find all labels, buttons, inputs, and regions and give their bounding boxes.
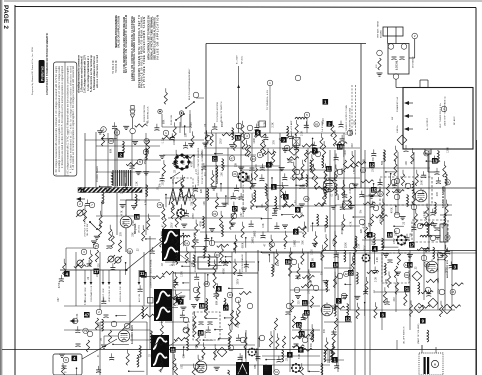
callout top 2 xyxy=(327,121,333,127)
node a1 xyxy=(101,127,107,133)
svg-text:120K: 120K xyxy=(173,179,175,185)
node h6 xyxy=(341,293,347,299)
callout x1 xyxy=(310,262,316,268)
callout 16c xyxy=(387,232,393,238)
callout 2c xyxy=(293,229,299,235)
bus wire y290 center xyxy=(290,289,330,291)
svg-text:680K: 680K xyxy=(342,168,344,174)
bus vertical x150 xyxy=(149,236,151,350)
svg-text:5%: 5% xyxy=(159,183,161,187)
svg-text:10: 10 xyxy=(198,330,203,335)
capacitor C1A in switch box xyxy=(392,57,397,60)
waveform photo box 1 xyxy=(162,229,180,261)
coil L1 line choke xyxy=(178,235,190,237)
svg-text:1.5K: 1.5K xyxy=(354,169,356,174)
svg-text:-1.1V: -1.1V xyxy=(321,254,323,260)
wire drop tl xyxy=(189,110,191,133)
resistor R20 xyxy=(95,318,98,330)
svg-text:470K: 470K xyxy=(200,221,202,227)
callout 47b xyxy=(84,312,90,318)
wire v4 grid xyxy=(104,335,118,337)
svg-text:680K: 680K xyxy=(224,268,226,274)
callout 20c xyxy=(223,305,229,311)
resistor R52 xyxy=(330,346,333,358)
wire stub1 xyxy=(269,86,271,133)
svg-text:2. Resistors are rated in ohms: 2. Resistors are rated in ohms K=1000 5.… xyxy=(61,65,64,168)
svg-text:ON-OFF SW: ON-OFF SW xyxy=(87,224,89,236)
callout x13 xyxy=(326,166,332,172)
bus vertical x335 xyxy=(334,150,336,310)
node a4 xyxy=(89,202,95,208)
svg-text:330: 330 xyxy=(311,343,313,348)
node pin col 1 xyxy=(394,178,400,184)
svg-text:5%: 5% xyxy=(203,356,205,360)
callout 11b xyxy=(170,347,176,353)
svg-text:10K: 10K xyxy=(263,223,265,228)
svg-text:3.3K: 3.3K xyxy=(77,313,79,318)
svg-text:135V: 135V xyxy=(380,217,382,223)
notes box outline xyxy=(54,62,77,176)
svg-text:68K: 68K xyxy=(164,119,166,124)
svg-text:100K: 100K xyxy=(98,322,100,328)
ratio transformer coil 2 xyxy=(420,235,432,237)
svg-text:-1.1V: -1.1V xyxy=(312,168,314,174)
svg-text:330: 330 xyxy=(373,157,375,162)
bus vertical x322 xyxy=(321,250,323,375)
svg-text:-1.1V: -1.1V xyxy=(163,138,165,144)
svg-text:56K: 56K xyxy=(351,130,353,135)
wire phono link xyxy=(161,114,163,127)
svg-text:120K: 120K xyxy=(386,278,388,284)
tube socket X2 xyxy=(237,171,248,182)
capacitor C50 xyxy=(388,260,393,263)
switch S1 interlock xyxy=(90,222,96,228)
svg-text:.22: .22 xyxy=(403,221,405,225)
svg-text:VHF ANT. TERM: VHF ANT. TERM xyxy=(377,21,380,38)
node ant xyxy=(412,33,418,39)
svg-text:TO PIN 4 OF: TO PIN 4 OF xyxy=(116,59,118,73)
callout x6 xyxy=(216,286,222,292)
resistor R2 xyxy=(118,240,121,252)
svg-text:47: 47 xyxy=(231,156,235,160)
svg-text:.22: .22 xyxy=(174,169,176,173)
svg-text:12K: 12K xyxy=(411,232,413,237)
capacitor C42 xyxy=(294,344,299,347)
node f6 xyxy=(183,317,189,323)
svg-text:8.2K: 8.2K xyxy=(285,243,287,248)
svg-text:100K: 100K xyxy=(174,139,176,145)
svg-text:2.2K: 2.2K xyxy=(302,130,304,135)
svg-text:unless otherwise noted: unless otherwise noted xyxy=(96,55,99,88)
svg-text:94: 94 xyxy=(145,139,149,143)
power transformer primary box xyxy=(198,257,217,269)
bus vertical x85 xyxy=(84,133,86,190)
svg-text:85: 85 xyxy=(425,151,429,155)
wire v1 k xyxy=(125,228,127,252)
svg-text:21: 21 xyxy=(212,156,217,161)
svg-text:47: 47 xyxy=(84,312,89,317)
switch S2 contacts xyxy=(171,172,180,178)
svg-text:11: 11 xyxy=(171,347,176,352)
svg-text:6AU8: 6AU8 xyxy=(216,177,219,184)
svg-text:18: 18 xyxy=(199,303,204,308)
svg-text:39K: 39K xyxy=(322,270,324,275)
bus wire y155 xyxy=(163,154,256,156)
svg-text:330: 330 xyxy=(299,300,301,305)
diamond tp4 xyxy=(414,303,424,313)
svg-text:FUSED SWITCH: FUSED SWITCH xyxy=(144,105,146,122)
wire ant drop xyxy=(414,39,416,58)
callout 5c xyxy=(255,130,261,136)
svg-text:2.2K: 2.2K xyxy=(311,280,313,285)
callout 11e xyxy=(140,271,146,277)
node switch top2 xyxy=(401,44,407,50)
tube V1 6BQ6 xyxy=(120,215,132,228)
svg-text:22K: 22K xyxy=(121,189,123,194)
svg-text:PAGE 2: PAGE 2 xyxy=(2,5,9,29)
svg-text:150V: 150V xyxy=(323,118,325,124)
callout x4 xyxy=(336,298,342,304)
callout 17e xyxy=(409,242,415,248)
bus vertical x241 xyxy=(240,133,242,188)
svg-text:84: 84 xyxy=(446,180,450,184)
node e6 xyxy=(87,331,93,337)
svg-text:TO PHONO MOTOR: TO PHONO MOTOR xyxy=(217,102,219,122)
tuner enclosure top xyxy=(206,43,366,45)
svg-text:250V: 250V xyxy=(191,122,193,128)
black box fuse holder xyxy=(263,365,272,375)
svg-text:22K: 22K xyxy=(369,222,371,227)
svg-text:5%: 5% xyxy=(360,210,362,214)
svg-text:LOCKING RANGE: LOCKING RANGE xyxy=(241,253,244,272)
svg-text:AT PICTURE TUBE WAVEFORMS TAK: AT PICTURE TUBE WAVEFORMS TAKEN xyxy=(142,17,146,88)
svg-text:12K: 12K xyxy=(234,247,236,252)
svg-text:22: 22 xyxy=(348,270,353,275)
potentiometer P3 brightness xyxy=(114,256,122,264)
svg-text:15: 15 xyxy=(304,310,309,315)
node c5 xyxy=(315,151,321,157)
coil L11 xyxy=(310,160,312,172)
svg-text:10K: 10K xyxy=(404,241,406,246)
tuner box tab xyxy=(425,149,431,154)
component cluster if strip xyxy=(159,118,366,261)
bus wire y160 left xyxy=(85,159,161,161)
bus wire y232 xyxy=(200,231,302,233)
svg-text:27K: 27K xyxy=(121,231,123,236)
svg-text:75: 75 xyxy=(158,203,162,207)
antenna insulator xyxy=(130,106,135,129)
callout x5 xyxy=(296,322,302,328)
terminal arrow a5 xyxy=(76,197,85,201)
schematic border left xyxy=(14,5,16,375)
svg-text:3.3K: 3.3K xyxy=(376,277,378,282)
svg-text:150V: 150V xyxy=(373,166,375,172)
svg-text:TO TUNER IF OUTPUT CONN: TO TUNER IF OUTPUT CONN xyxy=(346,105,348,135)
ground G1 xyxy=(91,241,97,244)
bus wire y188 xyxy=(80,187,476,189)
svg-text:470K: 470K xyxy=(392,207,394,213)
capacitor C13 xyxy=(328,178,333,181)
svg-text:.001: .001 xyxy=(182,364,184,369)
schematic border top xyxy=(15,7,476,8)
callout jack xyxy=(72,356,78,362)
wire stub2 xyxy=(306,118,308,133)
terminal to pin xyxy=(72,318,78,324)
capacitor C1B in switch box xyxy=(400,57,405,60)
svg-text:RF AGC: RF AGC xyxy=(453,116,456,125)
coil L30 xyxy=(312,330,314,342)
svg-text:61: 61 xyxy=(405,273,409,277)
callout x16 xyxy=(432,158,438,164)
svg-text:.02: .02 xyxy=(150,353,152,357)
mid-left enclosure line xyxy=(114,129,116,188)
wire wf2 link xyxy=(169,292,182,300)
capacitor C15 xyxy=(435,228,440,231)
svg-text:6BZ6: 6BZ6 xyxy=(338,194,340,200)
svg-text:10K: 10K xyxy=(192,262,194,267)
svg-text:3.3K: 3.3K xyxy=(425,211,427,216)
notes box divider xyxy=(64,62,66,176)
svg-text:.047: .047 xyxy=(241,212,243,217)
svg-text:Preferred: Preferred xyxy=(40,66,44,81)
svg-text:.0047: .0047 xyxy=(215,351,217,358)
dashed box ratio det xyxy=(412,220,448,242)
resistor R-ant 400 xyxy=(378,58,381,70)
svg-text:470K: 470K xyxy=(443,222,445,228)
svg-text:91: 91 xyxy=(379,192,383,196)
switch S4 xyxy=(186,102,194,108)
svg-text:1MEG: 1MEG xyxy=(294,240,296,247)
capacitor C21 xyxy=(76,344,81,347)
audio stage box right xyxy=(146,322,148,375)
wire if cable xyxy=(427,154,429,172)
if cable dashed line 1 xyxy=(351,85,353,135)
svg-text:120K: 120K xyxy=(448,147,450,153)
svg-text:1000: 1000 xyxy=(311,249,313,255)
capacitor C12 xyxy=(300,186,305,189)
svg-text:27K: 27K xyxy=(437,192,439,197)
dashed box sound if xyxy=(380,177,432,205)
b+ feed line xyxy=(238,66,240,133)
svg-text:68K: 68K xyxy=(196,344,198,349)
svg-text:135V: 135V xyxy=(193,213,195,219)
svg-text:1ST PICT IF IN COAXIAL CABLE: 1ST PICT IF IN COAXIAL CABLE xyxy=(84,204,87,237)
callout x15 xyxy=(212,156,218,162)
svg-text:ROTATION CONTROL VIEWED FROM S: ROTATION CONTROL VIEWED FROM SHAFT END xyxy=(132,17,136,81)
svg-text:↓ 2V: ↓ 2V xyxy=(159,321,164,324)
svg-text:.047: .047 xyxy=(413,200,415,205)
node f5 xyxy=(228,345,234,351)
svg-text:27K: 27K xyxy=(278,261,280,266)
coil L10 xyxy=(254,190,256,202)
node g6 xyxy=(259,335,265,341)
svg-text:BUILT-IN ANTENNA ASSEMBLY: BUILT-IN ANTENNA ASSEMBLY xyxy=(188,68,191,100)
node ph2 xyxy=(247,125,253,131)
svg-text:6W: 6W xyxy=(392,117,394,120)
node e1 xyxy=(93,243,99,249)
callout 4c xyxy=(367,232,373,238)
resistor R13 xyxy=(314,176,317,188)
resistor R17 xyxy=(370,214,373,226)
tube heater terminal in tuner xyxy=(441,106,447,112)
diamond tp-if xyxy=(289,146,299,156)
svg-text:1.5K: 1.5K xyxy=(363,159,365,164)
svg-text:11: 11 xyxy=(303,300,308,305)
callout 1c xyxy=(271,184,277,190)
svg-text:.01: .01 xyxy=(98,354,100,358)
svg-text:BOARD: BOARD xyxy=(380,30,383,38)
svg-text:1.5K: 1.5K xyxy=(335,279,337,284)
svg-text:22K: 22K xyxy=(236,162,238,167)
diamond tp3 xyxy=(412,271,422,281)
audio stage box left xyxy=(99,322,101,375)
terminal arrow fil1 xyxy=(404,101,413,105)
terminal drop CONTRAST xyxy=(90,270,92,282)
svg-text:1st AUDIO 6AV6: 1st AUDIO 6AV6 xyxy=(131,324,134,344)
crystal box B xyxy=(343,201,351,209)
svg-text:15: 15 xyxy=(371,187,376,192)
component cluster sound right xyxy=(358,145,450,261)
node h2 xyxy=(437,252,443,258)
terminal drop HOR xyxy=(119,270,121,282)
wire grid dense areas xyxy=(64,146,452,360)
controls bus wire xyxy=(60,269,128,271)
svg-text:120K: 120K xyxy=(254,138,256,144)
waveform photo box 2 xyxy=(154,289,172,321)
capacitor C40 xyxy=(296,276,301,279)
callout 18c xyxy=(199,303,205,309)
svg-text:VERT HOLD 1M: VERT HOLD 1M xyxy=(109,286,111,302)
component cluster mid-left lower xyxy=(85,186,162,247)
node ph1 xyxy=(236,123,242,129)
svg-text:(6CU6): (6CU6) xyxy=(139,225,141,233)
svg-text:22K: 22K xyxy=(201,188,203,193)
component cluster mid-left upper xyxy=(97,121,161,197)
node h5 xyxy=(337,273,343,279)
svg-text:10: 10 xyxy=(337,144,342,149)
node c6 xyxy=(323,187,329,193)
bus vertical x429 xyxy=(428,150,430,250)
callout x18 xyxy=(118,152,124,158)
callout 6c xyxy=(266,162,272,168)
svg-text:250V: 250V xyxy=(238,278,240,284)
capacitor C3 xyxy=(130,166,135,169)
svg-text:VALUE OR APPLICATION: VALUE OR APPLICATION xyxy=(117,16,121,48)
callout 12d xyxy=(345,316,351,322)
tuner enclosure right xyxy=(360,44,362,189)
callout 7b xyxy=(176,297,182,303)
svg-text:VALUE OR APPLICATION: VALUE OR APPLICATION xyxy=(156,15,160,60)
resistor R31 xyxy=(228,322,240,325)
svg-text:1st IF AMP: 1st IF AMP xyxy=(257,121,260,132)
dashed box audio coupling xyxy=(382,253,409,283)
component cluster bottom-right2 xyxy=(321,306,345,375)
svg-text:1MEG: 1MEG xyxy=(428,264,430,271)
svg-text:.01: .01 xyxy=(374,289,376,293)
svg-text:1000: 1000 xyxy=(345,149,347,155)
black tag 2 xyxy=(81,189,85,193)
component cluster top small xyxy=(164,88,182,126)
svg-text:LOCAL: LOCAL xyxy=(395,60,399,70)
svg-text:.05: .05 xyxy=(101,337,103,341)
svg-text:VOLUME 500K: VOLUME 500K xyxy=(85,287,87,302)
wire spk leads xyxy=(421,345,423,353)
resistor R22 xyxy=(86,340,89,352)
svg-text:DISTANCE: DISTANCE xyxy=(412,56,415,68)
callout x10 xyxy=(332,357,338,363)
svg-text:10K: 10K xyxy=(97,272,99,277)
svg-text:-1.1V: -1.1V xyxy=(310,334,312,340)
svg-text:120K: 120K xyxy=(438,277,440,283)
svg-text:27K: 27K xyxy=(423,189,425,194)
component cluster bottom-right xyxy=(321,245,464,319)
svg-text:1.5K: 1.5K xyxy=(203,366,205,371)
audio stage box top xyxy=(100,321,147,323)
capacitor C30 xyxy=(199,322,204,325)
terminal arrow b+ xyxy=(404,127,413,131)
svg-text:73: 73 xyxy=(84,329,88,333)
svg-text:92: 92 xyxy=(446,236,450,240)
bus vertical x173 xyxy=(172,273,174,375)
svg-text:4.7K: 4.7K xyxy=(364,223,366,228)
vhf antenna terminal board xyxy=(383,27,403,36)
resistor R12 xyxy=(304,150,307,162)
resistor R40 xyxy=(292,316,295,328)
node g1 xyxy=(240,337,246,343)
svg-text:10K: 10K xyxy=(221,172,223,177)
svg-text:CONTRAST 10K: CONTRAST 10K xyxy=(90,285,93,302)
svg-text:30: 30 xyxy=(107,188,111,192)
coil L12 xyxy=(427,223,429,235)
svg-text:PHONO-TV SWITCH: PHONO-TV SWITCH xyxy=(221,101,223,122)
potentiometer P2 contrast xyxy=(107,255,115,263)
callout x12 xyxy=(312,148,318,154)
resistor R4 xyxy=(83,210,86,222)
callout 7d xyxy=(178,299,184,305)
node e5 xyxy=(124,323,130,329)
callout 3c xyxy=(283,194,289,200)
svg-text:680K: 680K xyxy=(222,121,224,127)
svg-text:all readings measured to commo: all readings measured to common negative… xyxy=(58,65,61,172)
node c1 xyxy=(244,133,250,139)
svg-text:HOR HOLD 50K: HOR HOLD 50K xyxy=(120,286,122,302)
speaker voice coil xyxy=(431,360,438,367)
svg-text:54: 54 xyxy=(185,241,189,245)
node e2 xyxy=(81,249,87,255)
svg-text:B+ 260V: B+ 260V xyxy=(237,55,239,64)
svg-text:13: 13 xyxy=(432,158,437,163)
svg-text:11: 11 xyxy=(140,271,145,276)
node d4 xyxy=(417,223,423,229)
diamond tp1 xyxy=(397,135,407,145)
svg-text:.22: .22 xyxy=(286,357,288,361)
node c8 xyxy=(349,183,355,189)
svg-text:220K: 220K xyxy=(345,242,347,248)
resistor R50 xyxy=(394,266,397,278)
svg-text:10K: 10K xyxy=(342,223,344,228)
node e3 xyxy=(96,309,102,315)
svg-text:16: 16 xyxy=(134,214,139,219)
node c3 xyxy=(284,145,290,151)
node i2 xyxy=(304,112,310,118)
svg-text:8.2K: 8.2K xyxy=(183,159,185,164)
node switch top xyxy=(388,44,394,50)
callout 15c xyxy=(371,187,377,193)
svg-text:FILTER: FILTER xyxy=(205,330,207,338)
svg-text:22K: 22K xyxy=(429,247,431,252)
svg-text:68K: 68K xyxy=(110,148,112,153)
potentiometer P-fm xyxy=(76,209,84,217)
